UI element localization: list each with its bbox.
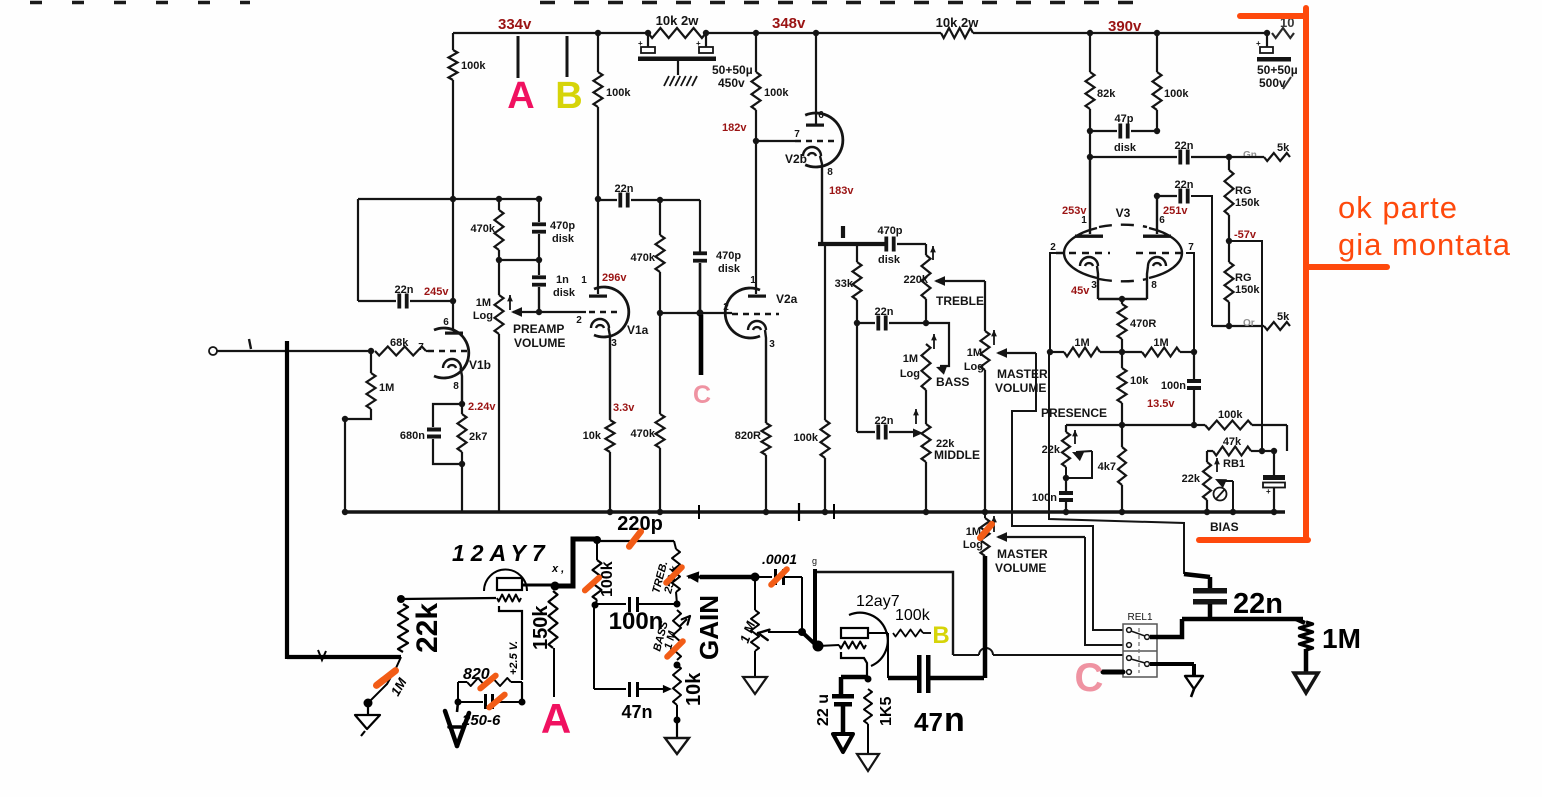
svg-text:680n: 680n — [400, 430, 425, 442]
svg-text:1M: 1M — [1153, 337, 1168, 349]
svg-text:TREBLE: TREBLE — [936, 294, 984, 308]
wire master wiper routing — [1012, 353, 1123, 630]
svg-text:B: B — [932, 622, 949, 649]
svg-text:BASS: BASS — [936, 375, 969, 389]
svg-text:RG: RG — [1235, 272, 1252, 284]
tube V1b — [434, 328, 469, 378]
resistor 470k (V1b) — [495, 210, 504, 250]
resistor 150k (hand) — [549, 591, 558, 648]
svg-text:10k: 10k — [1130, 375, 1149, 387]
svg-text:500v: 500v — [1259, 76, 1286, 90]
capacitor 100n (hand) — [595, 603, 626, 605]
svg-text:348v: 348v — [772, 15, 806, 32]
svg-text:RG: RG — [1235, 185, 1252, 197]
resistor 100k (V3 plate) — [1156, 33, 1158, 72]
ground (1M output) — [1294, 673, 1318, 693]
svg-text:BIAS: BIAS — [1210, 520, 1239, 534]
svg-text:C: C — [1075, 656, 1104, 700]
svg-text:disk: disk — [552, 233, 575, 245]
tube 12ay7 (hand 2) — [849, 613, 888, 666]
capacitor 1n disk — [538, 260, 540, 275]
resistor 2k7 — [461, 404, 463, 414]
capacitor 100n (presence) — [1059, 491, 1073, 495]
input jack — [209, 347, 217, 355]
svg-text:3.3v: 3.3v — [613, 402, 635, 414]
wire 22n bottom node — [1182, 617, 1303, 622]
resistor 47k RB1 — [1206, 451, 1208, 462]
svg-text:100k: 100k — [606, 87, 631, 99]
svg-text:450v: 450v — [718, 76, 745, 90]
svg-text:A: A — [507, 75, 534, 117]
svg-text:+2.5 V.: +2.5 V. — [508, 641, 520, 675]
resistor 1M (right) — [1122, 351, 1142, 353]
svg-text:MASTER: MASTER — [997, 547, 1048, 561]
svg-text:22n: 22n — [1233, 588, 1283, 620]
svg-text:7: 7 — [1188, 242, 1194, 253]
wire MV2 drop (thick) — [983, 556, 988, 678]
tube V1a — [594, 287, 629, 337]
svg-text:470p: 470p — [550, 220, 575, 232]
resistor 22k (hand) — [397, 595, 405, 603]
annotation orange slash (.0001) — [771, 569, 787, 585]
svg-text:V1a: V1a — [627, 323, 649, 337]
svg-text:x ,: x , — [551, 563, 564, 575]
capacitor 47n (hand, gain) — [593, 604, 595, 689]
svg-text:MIDDLE: MIDDLE — [934, 448, 980, 462]
wire plate elbow (hand) — [555, 539, 597, 586]
resistor RG 150k (lower) — [1225, 262, 1234, 302]
wire treble wiper — [936, 280, 985, 282]
svg-text:8: 8 — [453, 381, 459, 392]
wire NFB row — [1066, 424, 1194, 426]
svg-text:100n: 100n — [609, 608, 664, 635]
svg-text:3: 3 — [611, 338, 617, 349]
svg-text:22n: 22n — [1175, 179, 1194, 191]
svg-text:50+50µ: 50+50µ — [712, 63, 753, 77]
svg-text:33k: 33k — [835, 278, 854, 290]
svg-text:10k: 10k — [683, 672, 705, 706]
wire V1a plate stem — [597, 199, 599, 294]
svg-text:183v: 183v — [829, 185, 854, 197]
capacitor 22n (V1b feedback) — [358, 300, 396, 302]
wire to 470p disk — [660, 199, 700, 201]
svg-text:470k: 470k — [471, 223, 496, 235]
resistor 10k (V3 tail) — [1121, 352, 1123, 368]
potentiometer BASS 1M (hand) — [673, 610, 681, 660]
svg-text:100k: 100k — [895, 607, 931, 624]
wire REL1 row3 — [953, 654, 979, 656]
resistor 100k (hand B) — [893, 630, 923, 637]
potentiometer 1M Log BASS — [922, 344, 931, 390]
svg-text:22n: 22n — [875, 415, 894, 427]
svg-text:47p: 47p — [1115, 113, 1134, 125]
wire V2a plate line — [755, 33, 757, 72]
potentiometer 1M Log MASTER VOLUME (upper) — [981, 331, 990, 370]
svg-text:22n: 22n — [875, 306, 894, 318]
svg-text:3: 3 — [769, 339, 775, 350]
svg-text:MASTER: MASTER — [997, 367, 1048, 381]
svg-text:V2b: V2b — [785, 152, 807, 166]
capacitor 22n (V1a output) — [598, 199, 617, 201]
resistor 470k (V1a grid leak upper) — [656, 235, 665, 272]
wire 182v to V2a plate — [755, 141, 757, 294]
capacitor 470p disk (V2a grid) — [693, 251, 707, 255]
svg-text:82k: 82k — [1097, 88, 1116, 100]
node B — [566, 36, 569, 77]
resistor 4k7 — [1121, 425, 1123, 447]
capacitor 100n (V3) — [1193, 352, 1195, 379]
ground (1M hand) — [367, 703, 369, 715]
wire V2a grid row — [660, 312, 732, 314]
svg-text:Or: Or — [1243, 318, 1255, 329]
potentiometer 10k (hand) — [673, 665, 681, 705]
svg-text:1K5: 1K5 — [878, 697, 895, 726]
svg-text:2k7: 2k7 — [469, 431, 487, 443]
resistor 470k (lower) — [656, 414, 665, 448]
capacitor 22n (output) — [1184, 574, 1210, 577]
svg-text:100k: 100k — [461, 60, 486, 72]
capacitor 22n (Gn) — [1178, 150, 1182, 165]
resistor 1K5 (hand) — [864, 689, 872, 724]
svg-text:7: 7 — [794, 129, 800, 140]
wire 100k drop — [824, 246, 826, 420]
relay REL1 — [1123, 624, 1157, 677]
wire input 1M to bus — [345, 409, 371, 512]
svg-text:2.24v: 2.24v — [468, 401, 496, 413]
svg-text:1M: 1M — [1074, 337, 1089, 349]
svg-text:100k: 100k — [1164, 88, 1189, 100]
svg-text:22n: 22n — [395, 284, 414, 296]
capacitor 47p disk — [1090, 130, 1117, 132]
svg-text:VOLUME: VOLUME — [995, 561, 1046, 575]
wire V3-grid to 22n (hand route) — [1049, 353, 1184, 574]
svg-text:45v: 45v — [1071, 285, 1090, 297]
svg-text:V3: V3 — [1116, 206, 1131, 220]
svg-text:5k: 5k — [1277, 311, 1290, 323]
svg-text:Gn: Gn — [1243, 150, 1257, 161]
svg-text:VOLUME: VOLUME — [995, 381, 1046, 395]
potentiometer 22k PRESENCE — [1065, 425, 1067, 432]
resistor 5k (Gn) — [1229, 156, 1264, 158]
resistor 100k (NFB) — [1205, 421, 1252, 430]
svg-text:245v: 245v — [424, 286, 449, 298]
svg-text:6: 6 — [818, 110, 824, 121]
ground (1K5) — [857, 754, 879, 771]
svg-text:470p: 470p — [877, 225, 902, 237]
svg-text:g: g — [812, 556, 817, 566]
annotation orange slash (100k hand) — [585, 578, 599, 591]
resistor 33k — [856, 246, 858, 262]
capacitor 22n (middle) — [856, 323, 858, 432]
svg-text:182v: 182v — [722, 122, 747, 134]
svg-text:Log: Log — [900, 368, 920, 380]
svg-text:6: 6 — [443, 317, 449, 328]
potentiometer 1M gain (hand) — [754, 577, 756, 610]
wire feedback loop (12ay7) — [815, 572, 953, 655]
annotation orange slash (MV2) — [980, 524, 992, 538]
svg-text:4k7: 4k7 — [1098, 461, 1116, 473]
annotation orange bracket — [1303, 8, 1309, 540]
capacitor 470p disk (V1b) — [538, 199, 540, 222]
svg-text:8: 8 — [827, 167, 833, 178]
svg-text:1M: 1M — [476, 297, 491, 309]
capacitor 22n (bass) — [857, 322, 875, 324]
wire 220p row — [597, 540, 674, 542]
node 2.24v — [459, 401, 465, 407]
resistor 82k — [1089, 33, 1091, 72]
tube V2a — [725, 288, 760, 338]
svg-text:7: 7 — [418, 342, 424, 353]
wire V2b cathode bar — [818, 242, 886, 246]
svg-text:22k: 22k — [411, 603, 444, 653]
svg-text:5k: 5k — [1277, 142, 1290, 154]
svg-text:47n: 47n — [621, 702, 652, 722]
wire V3 grid left — [1050, 253, 1056, 353]
resistor 5k (Or) — [1264, 322, 1290, 330]
ground (450v cap) — [664, 76, 669, 86]
svg-text:334v: 334v — [498, 16, 532, 33]
wire V1b plate line — [452, 80, 454, 199]
wire hand input drop — [285, 341, 289, 659]
wire node row 2 — [499, 259, 539, 261]
svg-text:1M: 1M — [1322, 623, 1361, 654]
resistor 100k (tone stack) — [821, 420, 830, 458]
svg-text:3: 3 — [1091, 280, 1097, 291]
svg-text:47: 47 — [914, 707, 943, 737]
annotation orange slash (220p) — [629, 532, 641, 547]
svg-text:12AY7: 12AY7 — [452, 540, 551, 566]
svg-text:VOLUME: VOLUME — [514, 336, 565, 350]
node -57v — [1226, 238, 1232, 244]
svg-text:22n: 22n — [1175, 140, 1194, 152]
resistor RG 150k (upper) — [1228, 157, 1230, 170]
wire V1b cathode to bus — [461, 464, 463, 512]
svg-text:disk: disk — [1114, 142, 1137, 154]
resistor 100k (V2b plate) — [752, 72, 761, 110]
svg-text:470R: 470R — [1130, 318, 1156, 330]
svg-text:150k: 150k — [1235, 197, 1260, 209]
tube V3 — [1089, 157, 1091, 234]
wire B+ rail — [453, 32, 648, 34]
annotation orange slash (1M hand) — [377, 671, 396, 686]
node C (thick stub) — [699, 315, 704, 375]
svg-text:RB1: RB1 — [1223, 458, 1245, 470]
svg-text:251v: 251v — [1163, 205, 1188, 217]
capacitor 820 network — [521, 682, 523, 702]
svg-text:C: C — [693, 381, 711, 409]
capacitor 47n (hand out) — [887, 633, 889, 678]
node Or — [1212, 325, 1229, 327]
svg-text:1M: 1M — [967, 347, 982, 359]
svg-text:390v: 390v — [1108, 18, 1142, 35]
ground (1M gain hand) — [754, 651, 756, 677]
wire grid of V2b — [756, 140, 795, 142]
wire Gn row — [1089, 131, 1091, 157]
svg-text:253v: 253v — [1062, 205, 1087, 217]
svg-text:Log: Log — [964, 361, 984, 373]
capacitor 50+50u 500v — [1266, 33, 1268, 47]
svg-text:GAIN: GAIN — [694, 595, 724, 660]
svg-text:220k: 220k — [904, 274, 929, 286]
capacitor 680n — [433, 404, 462, 427]
capacitor .0001 (hand) — [751, 573, 760, 582]
svg-text:22k: 22k — [1042, 444, 1061, 456]
svg-text:disk: disk — [553, 287, 576, 299]
svg-text:REL1: REL1 — [1127, 612, 1152, 623]
svg-text:V1b: V1b — [469, 358, 491, 372]
svg-text:100k: 100k — [764, 87, 789, 99]
annotation orange slash (BASS) — [667, 641, 683, 657]
svg-text:1M: 1M — [379, 382, 394, 394]
resistor 1M (left) — [1050, 351, 1064, 353]
svg-text:B: B — [555, 75, 582, 117]
wire bass wiper — [926, 323, 949, 366]
svg-text:2: 2 — [1050, 242, 1056, 253]
resistor 470R — [1121, 299, 1123, 304]
resistor 10k (V1a cathode) — [606, 420, 615, 452]
svg-text:10k 2w: 10k 2w — [656, 13, 700, 28]
svg-text:1M: 1M — [903, 353, 918, 365]
svg-text:PRESENCE: PRESENCE — [1041, 406, 1107, 420]
svg-text:100n: 100n — [1032, 492, 1057, 504]
ground (REL1) — [1150, 662, 1194, 666]
tube 12AY7 (hand) — [484, 570, 527, 592]
svg-text:n: n — [944, 701, 965, 739]
svg-text:2: 2 — [723, 302, 729, 313]
resistor 820R — [762, 423, 771, 455]
svg-text:1: 1 — [750, 275, 756, 286]
svg-text:PREAMP: PREAMP — [513, 322, 564, 336]
svg-text:22k: 22k — [1182, 473, 1201, 485]
svg-text:820R: 820R — [735, 430, 761, 442]
potentiometer 22k MIDDLE — [922, 424, 931, 462]
svg-text:150k: 150k — [530, 605, 552, 650]
potentiometer 22k BIAS — [1203, 462, 1211, 500]
ground (10k hand) — [676, 720, 678, 738]
svg-text:470k: 470k — [631, 428, 656, 440]
potentiometer 1M Log PREAMP VOLUME — [498, 260, 500, 295]
svg-text:10k 2w: 10k 2w — [936, 15, 980, 30]
svg-text:8: 8 — [1151, 280, 1157, 291]
svg-text:47k: 47k — [1223, 436, 1242, 448]
capacitor 50+50u 450v — [647, 33, 649, 47]
capacitor 22u (hand) — [841, 675, 868, 680]
svg-text:.0001: .0001 — [762, 551, 797, 567]
resistor 68k — [217, 350, 371, 352]
svg-text:disk: disk — [718, 263, 741, 275]
resistor 100k (V1a plate) — [597, 33, 599, 72]
capacitor 22n (Or) — [1157, 195, 1177, 197]
annotation orange slash (820) — [480, 676, 495, 689]
svg-text:68k: 68k — [390, 337, 409, 349]
wire TREB wiper (thick) — [700, 575, 753, 580]
resistor 100k (hand) — [596, 540, 598, 560]
capacitor electrolytic (bias) — [1273, 451, 1275, 475]
svg-text:50+50µ: 50+50µ — [1257, 63, 1298, 77]
potentiometer TREB 250k (hand) — [674, 541, 676, 549]
svg-text:100k: 100k — [794, 432, 819, 444]
svg-text:gia montata: gia montata — [1338, 227, 1511, 262]
wire preamp wiper to V1a grid — [539, 311, 586, 313]
wire V1b feedback loop — [358, 198, 540, 200]
svg-text:100k: 100k — [1218, 409, 1243, 421]
svg-text:1n: 1n — [556, 274, 569, 286]
resistor 100k (V1b plate) — [452, 33, 454, 50]
svg-text:12ay7: 12ay7 — [856, 593, 900, 610]
svg-text:13.5v: 13.5v — [1147, 398, 1175, 410]
annotation orange slash (250-6) — [489, 695, 504, 708]
potentiometer 1M Log MASTER VOLUME (lower) — [984, 512, 986, 518]
resistor 10k 2w (left) — [648, 28, 706, 38]
resistor 1M (output) — [1300, 622, 1313, 650]
svg-text:100n: 100n — [1161, 380, 1186, 392]
svg-text:22n: 22n — [615, 183, 634, 195]
svg-text:-57v: -57v — [1234, 229, 1257, 241]
wire ground bus — [343, 510, 1285, 513]
svg-text:+: + — [1266, 487, 1271, 496]
potentiometer 1M (hand) — [368, 657, 401, 703]
wire 22k grid row — [401, 598, 496, 599]
svg-text:ok parte: ok parte — [1338, 190, 1458, 225]
svg-text:V2a: V2a — [776, 292, 798, 306]
svg-text:150k: 150k — [1235, 284, 1260, 296]
resistor 10k 2w (right) — [941, 28, 973, 38]
node C (REL1 stub) — [1103, 670, 1123, 675]
wire -57v line — [1229, 241, 1262, 451]
resistor 10k (top right, partial) — [1272, 28, 1294, 38]
svg-text:disk: disk — [878, 254, 901, 266]
wire grid node (hand) — [802, 632, 817, 646]
tube V2b — [815, 33, 817, 125]
wire MV2 wiper to REL1 — [998, 536, 1085, 538]
ground (cathode hand) — [457, 702, 458, 712]
capacitor 470p disk (treble) — [884, 237, 888, 252]
svg-text:2: 2 — [576, 315, 582, 326]
svg-text:1: 1 — [581, 275, 587, 286]
svg-text:296v: 296v — [602, 272, 627, 284]
svg-text:A: A — [541, 695, 571, 742]
potentiometer 220k TREBLE — [925, 244, 927, 255]
svg-text:470p: 470p — [716, 250, 741, 262]
svg-text:10k: 10k — [583, 430, 602, 442]
svg-text:Log: Log — [473, 310, 493, 322]
annotation orange slash (TREB) — [666, 567, 682, 583]
svg-text:470k: 470k — [631, 252, 656, 264]
resistor 1M (input) — [370, 351, 372, 373]
wire V3 grid right — [1186, 253, 1194, 352]
node A — [517, 36, 520, 78]
svg-text:22 u: 22 u — [815, 694, 832, 726]
